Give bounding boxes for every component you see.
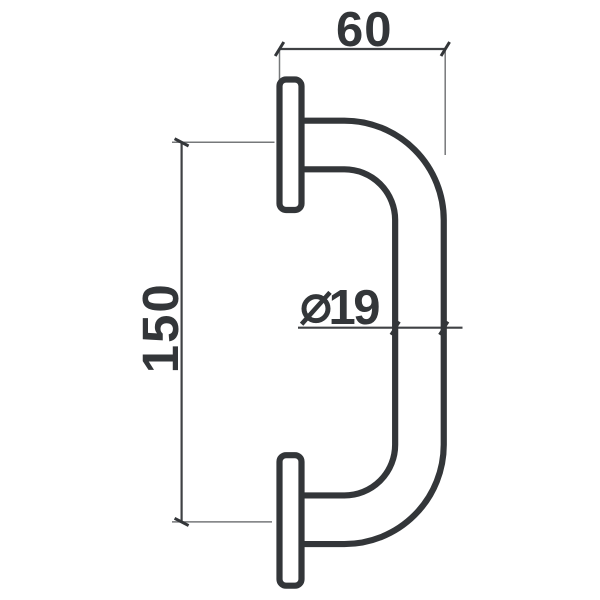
svg-text:19: 19 [329,281,380,335]
svg-text:60: 60 [336,3,393,57]
svg-text:150: 150 [132,282,189,373]
